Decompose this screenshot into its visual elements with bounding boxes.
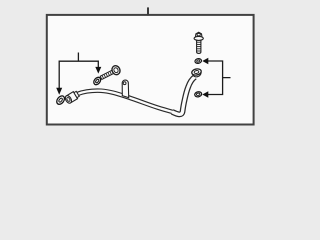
right callout bracket xyxy=(208,61,231,95)
o-ring (left, part callout) xyxy=(55,94,66,105)
o-ring (lower right) xyxy=(194,91,202,97)
pipe assembly (main tube, right riser) xyxy=(172,77,195,114)
o-ring (upper right) xyxy=(194,58,201,64)
arrow (right bracket, lower) xyxy=(202,91,208,97)
bolt (middle, tilted flange bolt) xyxy=(99,64,122,82)
pipe assembly (main tube, left run) xyxy=(78,77,195,114)
fitting (left pipe end union nut) xyxy=(64,90,80,104)
callout tick (top center, part 1 leader) xyxy=(147,7,149,15)
panel frame xyxy=(47,15,254,125)
bolt (right, vertical flange bolt) xyxy=(194,32,203,53)
left callout bracket xyxy=(59,53,98,91)
wire: pipe white core xyxy=(78,91,173,112)
o-ring (middle, under bolt) xyxy=(92,76,102,86)
arrow (left bracket, left arm) xyxy=(56,88,62,95)
arrow (left bracket, right arm) xyxy=(95,67,101,74)
arrow (right bracket, upper) xyxy=(202,58,208,64)
fitting (right pipe end flange) xyxy=(191,68,202,78)
mounting tab (bracket ear with hole on pipe) xyxy=(122,80,129,98)
